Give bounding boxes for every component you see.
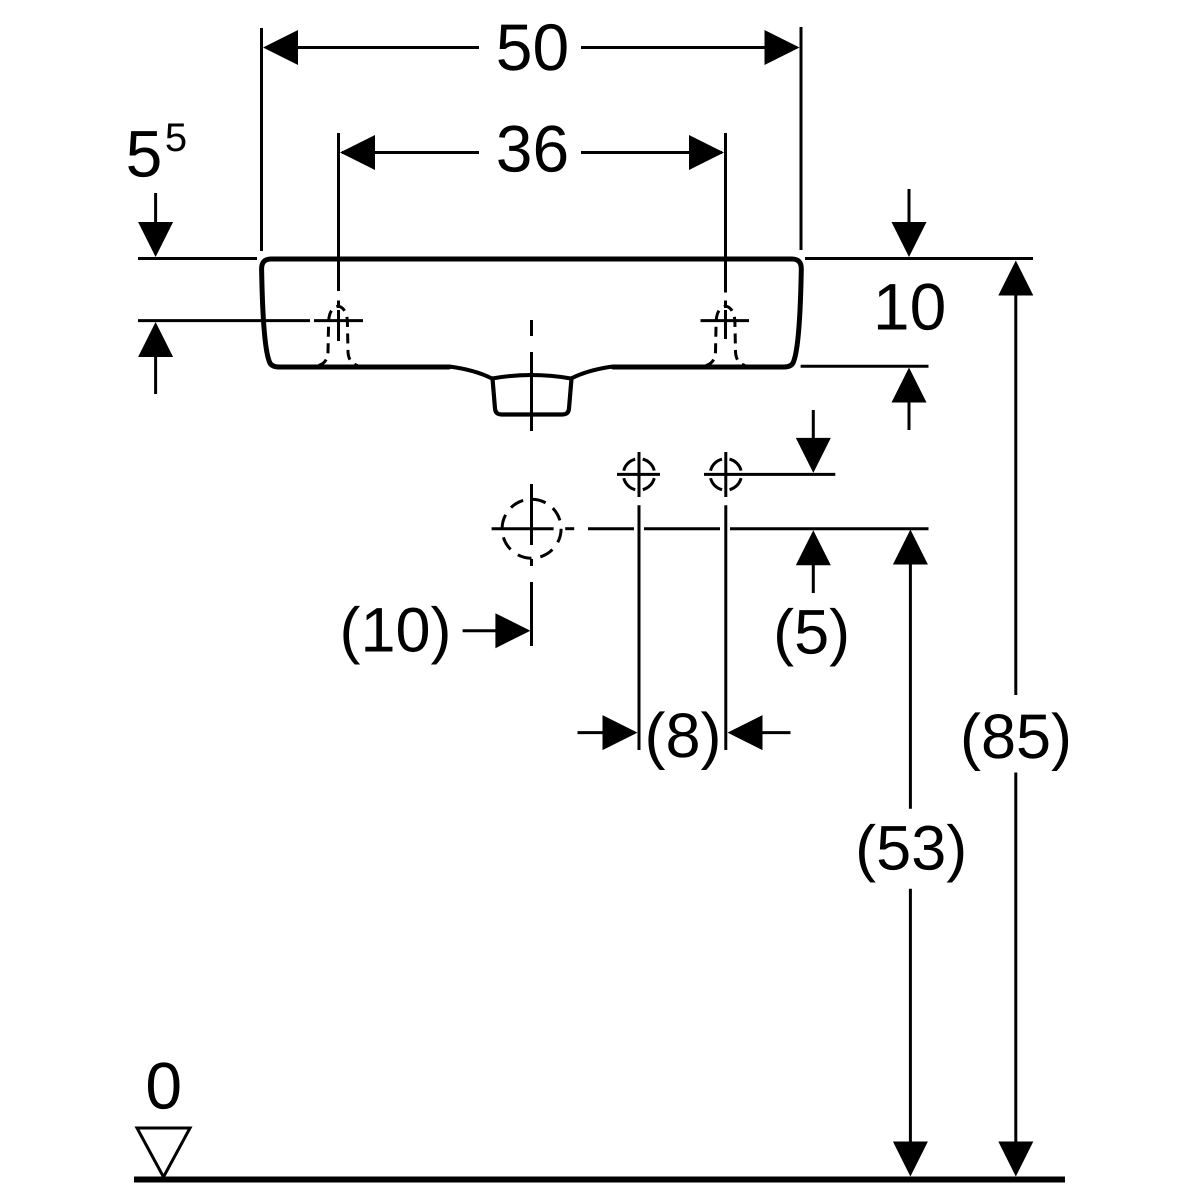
dim (5) down arrowhead bbox=[796, 438, 831, 473]
dim (8) right arrowhead bbox=[728, 715, 763, 750]
drain axis dash bbox=[565, 527, 574, 530]
dimension line 36 left segment bbox=[342, 151, 479, 154]
svg-text:(10): (10) bbox=[339, 596, 451, 666]
dimension line 50 right segment bbox=[581, 46, 797, 49]
small hole 2 crosshair vertical bbox=[724, 452, 727, 497]
drain centerline dash c bbox=[530, 559, 533, 566]
svg-text:50: 50 bbox=[496, 10, 569, 84]
drain level line segment a bbox=[588, 527, 634, 530]
dim 10 down arrowhead bbox=[892, 222, 927, 257]
tap hole right crosshair vertical bbox=[724, 310, 727, 339]
reference line tap level left bbox=[138, 319, 310, 322]
tap hole left crosshair horizontal bbox=[314, 319, 363, 322]
drain centerline dash a bbox=[530, 320, 533, 336]
svg-text:0: 0 bbox=[145, 1049, 182, 1123]
extension line right of dim 36 bbox=[724, 133, 727, 293]
dim (53) top arrowhead bbox=[893, 530, 928, 565]
dim (5) up arrow tail bbox=[812, 564, 815, 593]
dim (8) left arrowhead bbox=[603, 715, 638, 750]
tap holes axis line left segment bbox=[617, 473, 660, 476]
dim (8) right arrow tail bbox=[762, 731, 791, 734]
drain centerline dash b bbox=[530, 352, 533, 366]
tap hole left dashed bell bbox=[319, 306, 358, 365]
dim 10 up arrowhead bbox=[892, 368, 927, 403]
extension line right of dim 50 bbox=[800, 27, 803, 250]
dim (53) line lower segment bbox=[909, 889, 912, 1143]
dim (53) line upper segment bbox=[909, 563, 912, 809]
dim (5) up arrowhead bbox=[796, 530, 831, 565]
drain centerline through trap bbox=[530, 366, 533, 431]
washbasin outline bbox=[262, 259, 802, 367]
dim (53) bottom arrowhead bbox=[893, 1142, 928, 1177]
dim (5) down arrow tail bbox=[812, 410, 815, 439]
svg-text:(5): (5) bbox=[773, 598, 850, 668]
drain level line segment b bbox=[644, 527, 720, 530]
drain centerline dash d bbox=[530, 582, 533, 646]
dim (8) left arrow tail bbox=[578, 731, 605, 734]
hole 1 extension line down bbox=[638, 505, 641, 750]
dim 50 right arrowhead bbox=[765, 30, 800, 65]
reference line rim top left bbox=[138, 257, 257, 260]
svg-text:(53): (53) bbox=[855, 814, 967, 884]
extension line left of dim 50 bbox=[260, 28, 263, 251]
dim (85) bottom arrowhead bbox=[998, 1142, 1033, 1177]
drain crosshair vertical bbox=[530, 484, 533, 545]
dim (85) top arrowhead bbox=[998, 261, 1033, 296]
dim 10 down arrow tail bbox=[908, 189, 911, 224]
drain hole dashed circle bbox=[502, 499, 561, 558]
dim 36 right arrowhead bbox=[689, 135, 724, 170]
small hole 2 dashed circle bbox=[710, 459, 741, 490]
svg-text:5: 5 bbox=[126, 117, 163, 191]
dim 10 up arrow tail bbox=[908, 401, 911, 430]
dim (85) line upper segment bbox=[1014, 294, 1017, 695]
dim (10) arrowhead bbox=[495, 613, 530, 648]
dim (85) line lower segment bbox=[1014, 773, 1017, 1144]
dimension line 50 left segment bbox=[266, 46, 479, 49]
drain trap cup bbox=[493, 379, 572, 415]
drain saucer curve bbox=[449, 367, 613, 379]
drain axis crosshair horizontal bbox=[492, 527, 554, 530]
dim (10) arrow tail bbox=[463, 629, 497, 632]
dim 5.5 up arrow tail bbox=[154, 356, 157, 394]
reference line basin bottom right bbox=[801, 365, 929, 368]
dim 5.5 up arrowhead bbox=[138, 322, 173, 357]
datum triangle bbox=[137, 1128, 190, 1177]
hole 2 extension line down bbox=[724, 505, 727, 750]
tap hole left crosshair vertical dash bbox=[337, 301, 340, 309]
dim 36 left arrowhead bbox=[340, 135, 375, 170]
tap hole right dashed bell bbox=[706, 306, 745, 365]
tap hole right crosshair vertical dash bbox=[724, 301, 727, 309]
tap hole right crosshair horizontal bbox=[701, 319, 750, 322]
drain level line segment c bbox=[730, 527, 929, 530]
svg-text:(8): (8) bbox=[645, 701, 722, 771]
svg-text:(85): (85) bbox=[960, 702, 1072, 772]
small hole 1 dashed circle bbox=[623, 459, 654, 490]
floor line bbox=[134, 1177, 1065, 1183]
extension line left of dim 36 bbox=[337, 133, 340, 291]
dim 5.5 down arrowhead bbox=[138, 222, 173, 257]
dimension line 36 right segment bbox=[581, 151, 722, 154]
dim 50 left arrowhead bbox=[263, 30, 298, 65]
small hole 1 crosshair vertical bbox=[638, 452, 641, 497]
svg-text:10: 10 bbox=[873, 269, 946, 343]
dim 5.5 down arrow tail bbox=[154, 193, 157, 224]
tap holes axis line right segment bbox=[704, 473, 835, 476]
svg-text:36: 36 bbox=[496, 112, 569, 186]
reference line rim top right bbox=[805, 257, 1033, 260]
tap hole left crosshair vertical bbox=[337, 310, 340, 341]
